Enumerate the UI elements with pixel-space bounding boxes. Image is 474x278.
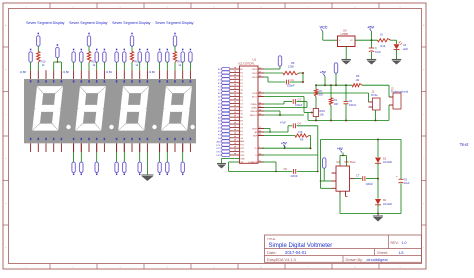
wire IN HI bbox=[264, 93, 369, 102]
svg-text:IN LO: IN LO bbox=[252, 97, 258, 99]
svg-text:R2: R2 bbox=[319, 89, 323, 93]
svg-text:TITLE:: TITLE: bbox=[267, 237, 276, 241]
power flag VCC bbox=[320, 25, 338, 40]
resistor R13 1k (display4) bbox=[173, 33, 182, 79]
wire R9 out bbox=[309, 136, 311, 150]
net flag OSC1 bbox=[278, 56, 281, 69]
svg-text:22K: 22K bbox=[319, 92, 324, 96]
ground (LED) bbox=[392, 60, 402, 65]
decimal point 4 bbox=[190, 125, 194, 129]
ground (U1 GND) bbox=[217, 164, 226, 169]
seven segment display block body bbox=[24, 79, 196, 143]
net flag below display3 pin2 bbox=[123, 143, 126, 175]
net flag (display3 pin5) bbox=[146, 49, 149, 79]
svg-text:RM1: RM1 bbox=[320, 109, 326, 113]
resistor R2 22K bbox=[314, 85, 323, 108]
svg-text:1K: 1K bbox=[380, 33, 383, 37]
svg-text:+5V: +5V bbox=[281, 142, 288, 146]
ground (filter cap) bbox=[367, 60, 377, 65]
svg-text:100nF: 100nF bbox=[349, 103, 357, 107]
svg-text:GND: GND bbox=[240, 159, 245, 161]
svg-text:Seven Segment Display: Seven Segment Display bbox=[112, 21, 151, 25]
svg-text:100uF: 100uF bbox=[295, 103, 303, 107]
svg-text:R10: R10 bbox=[41, 60, 46, 64]
svg-text:2017-04-01: 2017-04-01 bbox=[285, 250, 307, 255]
net flag below display2 pin1 bbox=[72, 143, 75, 175]
svg-text:REV:: REV: bbox=[391, 241, 399, 245]
wire pump bottom bbox=[340, 194, 401, 214]
svg-text:+: + bbox=[396, 174, 398, 178]
svg-text:10uF: 10uF bbox=[404, 182, 410, 185]
connector J2 Probe(optional) bbox=[389, 85, 408, 120]
net flag (display4 pin1) bbox=[158, 49, 161, 79]
svg-text:C3: C3 bbox=[298, 98, 302, 102]
seven-segment digit 3 (all segments lit) bbox=[118, 86, 149, 131]
net flag (display3 pin4) bbox=[138, 49, 141, 79]
svg-text:circuitdigest: circuitdigest bbox=[367, 257, 389, 262]
resistor R5 1M bbox=[352, 74, 362, 87]
capacitor C7 100nF bbox=[356, 173, 378, 185]
svg-text:10K: 10K bbox=[334, 102, 339, 106]
net flag below display2 pin4 bbox=[95, 143, 98, 175]
capacitor C5 100nF bbox=[344, 85, 357, 120]
net flag (display2 pin2) bbox=[80, 49, 83, 79]
svg-text:100pF: 100pF bbox=[287, 84, 295, 88]
wire AZ bbox=[264, 126, 292, 132]
wire measure rail bbox=[315, 84, 389, 86]
decimal point 2 bbox=[109, 125, 113, 129]
net flag below display4 pin4 bbox=[181, 143, 184, 175]
net flag (display4 pin4) bbox=[181, 49, 184, 79]
svg-text:ICL7107CPL: ICL7107CPL bbox=[239, 62, 255, 66]
decimal point 3 bbox=[152, 125, 156, 129]
svg-text:C1: C1 bbox=[291, 78, 295, 82]
svg-text:OSC2: OSC2 bbox=[252, 73, 258, 75]
svg-text:C6: C6 bbox=[284, 167, 288, 171]
seven-segment digit 4 (all segments lit) bbox=[161, 86, 192, 131]
wire CREF- bbox=[264, 102, 307, 108]
diode D2 1N4148 bbox=[375, 179, 392, 214]
unconnected pin stub display1 bbox=[45, 70, 47, 79]
svg-text:1.0: 1.0 bbox=[402, 241, 407, 245]
svg-text:47uF: 47uF bbox=[280, 120, 286, 124]
svg-text:+5V: +5V bbox=[320, 70, 327, 74]
svg-text:OSC1: OSC1 bbox=[252, 69, 258, 71]
wire C4 to node bbox=[297, 126, 318, 172]
net flag below display3 pin1 bbox=[115, 143, 118, 175]
resistor R10 1k (display1 com) bbox=[37, 33, 46, 79]
svg-text:10k: 10k bbox=[320, 112, 325, 116]
net flag (display2 pin4) bbox=[95, 49, 98, 79]
svg-text:R8: R8 bbox=[291, 61, 295, 65]
svg-text:Seven Segment Display: Seven Segment Display bbox=[26, 21, 65, 25]
resistor R16 1K bbox=[378, 33, 397, 49]
net flag below display3 pin4 bbox=[138, 143, 141, 175]
wire OSC1 bbox=[264, 68, 280, 70]
wire INT pin U1 bbox=[229, 162, 292, 171]
resistor R12 1k (display3) bbox=[130, 33, 139, 79]
svg-text:V-: V- bbox=[255, 155, 257, 157]
resistor R11 1k (display2) bbox=[87, 33, 96, 79]
svg-text:R5: R5 bbox=[356, 74, 360, 78]
wire COMMON bbox=[262, 162, 277, 172]
net flag seg A (display1) bbox=[29, 49, 32, 79]
wire IN LO bbox=[264, 97, 304, 113]
net flag shared pins 4-5 display1 bbox=[54, 44, 62, 79]
svg-text:C: C bbox=[375, 46, 377, 50]
svg-text:Drawn By:: Drawn By: bbox=[346, 258, 364, 262]
svg-text:Seven Segment Display: Seven Segment Display bbox=[155, 21, 194, 25]
capacitor C4 0.47uF bbox=[280, 120, 301, 128]
svg-text:CREF+: CREF+ bbox=[251, 104, 258, 106]
wire V- bbox=[262, 154, 318, 156]
svg-text:1/1: 1/1 bbox=[399, 250, 404, 255]
wire REF LO bbox=[264, 114, 304, 116]
svg-text:L7805: L7805 bbox=[341, 32, 349, 36]
regulator U3 L7805 bbox=[338, 28, 356, 59]
ground (display common) bbox=[141, 152, 153, 181]
wire pump rail bbox=[320, 139, 401, 182]
wire BUF bbox=[264, 135, 295, 137]
svg-text:LED: LED bbox=[403, 47, 408, 51]
wire OSC2 bbox=[264, 72, 283, 74]
wire CREF+ bbox=[264, 102, 292, 105]
svg-text:Probe(optional): Probe(optional) bbox=[391, 90, 408, 93]
svg-text:Date:: Date: bbox=[267, 250, 277, 255]
wire 555 out bbox=[355, 178, 362, 180]
net flag (display4 pin2) bbox=[166, 49, 169, 79]
svg-text:Sheet:: Sheet: bbox=[377, 250, 388, 255]
power flag +5V (supply) bbox=[367, 25, 374, 40]
diode D1 1N4148 bbox=[375, 140, 392, 180]
op-amp U1 ICL7107CPL bbox=[239, 58, 265, 164]
net label bus to U1 bbox=[216, 67, 239, 157]
svg-text:1N4148: 1N4148 bbox=[383, 161, 392, 164]
svg-text:+5V: +5V bbox=[337, 147, 344, 151]
wire bottom rail bbox=[308, 113, 389, 122]
display bottom pin stubs bbox=[31, 143, 191, 152]
seven-segment digit 1 (all segments lit) bbox=[32, 86, 63, 131]
svg-text:J1,B6: J1,B6 bbox=[63, 71, 70, 74]
svg-text:C5: C5 bbox=[349, 99, 353, 103]
timer U2 555 bbox=[332, 161, 356, 196]
svg-text:47K: 47K bbox=[298, 130, 303, 134]
svg-text:OSC3: OSC3 bbox=[252, 77, 258, 79]
net flag Vin bbox=[334, 63, 337, 85]
capacitor C8 10uF bbox=[396, 140, 410, 214]
svg-text:Simple Digital Voltmeter: Simple Digital Voltmeter bbox=[269, 243, 333, 249]
svg-text:EasyEDA V4.1.3: EasyEDA V4.1.3 bbox=[267, 257, 296, 262]
svg-text:555 Timer: 555 Timer bbox=[345, 161, 356, 164]
power flag +5V (555) bbox=[337, 147, 347, 166]
svg-text:REF HI: REF HI bbox=[251, 111, 258, 113]
svg-text:C7: C7 bbox=[356, 173, 360, 177]
power flag +5V (V+) bbox=[281, 142, 288, 148]
svg-text:R16: R16 bbox=[381, 44, 386, 48]
svg-text:Text: Text bbox=[460, 142, 469, 148]
svg-text:10uF: 10uF bbox=[375, 50, 381, 54]
svg-text:J1,B8: J1,B8 bbox=[20, 71, 27, 74]
potentiometer RM1 10k bbox=[304, 109, 326, 121]
svg-text:U3: U3 bbox=[343, 28, 347, 32]
net flag below display2 pin2 bbox=[80, 143, 83, 175]
svg-text:C4: C4 bbox=[298, 122, 302, 126]
wire V+ bbox=[262, 145, 311, 149]
resistor R9 47K bbox=[295, 130, 309, 141]
net flag (display3 pin1) bbox=[115, 49, 118, 79]
svg-text:POL: POL bbox=[216, 145, 221, 147]
capacitor C3 100uF bbox=[293, 98, 303, 107]
resistor R8 120K bbox=[283, 61, 299, 75]
display pin numbers bbox=[30, 80, 191, 140]
svg-text:COMMON: COMMON bbox=[248, 162, 258, 164]
net flag (display3 pin2) bbox=[123, 49, 126, 79]
wire 555 pin2-3 bbox=[321, 181, 332, 188]
ground (pump) bbox=[373, 214, 383, 222]
capacitor C1 100pF bbox=[287, 78, 295, 88]
net flag below display4 pin1 bbox=[158, 143, 161, 175]
wire C6 right bbox=[297, 171, 319, 173]
connector J1 Probe bbox=[369, 91, 381, 121]
svg-text:1N4148: 1N4148 bbox=[383, 203, 392, 206]
svg-text:U4: U4 bbox=[403, 43, 407, 47]
capacitor C6 220nF bbox=[284, 167, 299, 178]
title block bbox=[265, 235, 422, 262]
svg-text:J1,B2: J1,B2 bbox=[149, 71, 156, 74]
wire REF HI bbox=[264, 111, 281, 116]
svg-text:CREF-: CREF- bbox=[251, 108, 257, 110]
wire TEST bbox=[264, 129, 271, 133]
svg-text:100nF: 100nF bbox=[366, 182, 374, 186]
svg-text:120K: 120K bbox=[288, 64, 294, 68]
net flag (display2 pin1) bbox=[72, 49, 75, 79]
power flag +5V (rail) bbox=[320, 70, 327, 85]
svg-text:TEST: TEST bbox=[252, 129, 258, 131]
svg-text:Seven Segment Display: Seven Segment Display bbox=[69, 21, 108, 25]
svg-text:J1,B4: J1,B4 bbox=[106, 71, 113, 74]
LED U4 bbox=[394, 40, 408, 59]
svg-text:1M: 1M bbox=[356, 78, 360, 82]
resistor R4 10K bbox=[329, 85, 338, 120]
svg-text:VCC: VCC bbox=[320, 25, 328, 29]
ground (regulator) bbox=[341, 60, 351, 65]
svg-text:+5V: +5V bbox=[367, 25, 374, 29]
wire GND pin U1 bbox=[222, 159, 240, 164]
svg-text:R4: R4 bbox=[334, 98, 338, 102]
svg-text:Probe: Probe bbox=[371, 94, 378, 97]
wire OSC3 bbox=[264, 77, 285, 82]
seven-segment digit 2 (all segments lit) bbox=[75, 86, 106, 131]
svg-text:R9: R9 bbox=[300, 138, 304, 142]
wire OSC loop bbox=[290, 72, 304, 83]
net flag (display2 pin5) bbox=[103, 49, 106, 79]
wire regulator out bbox=[355, 39, 378, 41]
svg-text:IN HI: IN HI bbox=[253, 93, 258, 95]
net flag 555 bbox=[323, 158, 326, 181]
capacitor C 10uF bbox=[369, 40, 382, 59]
svg-text:220nF: 220nF bbox=[291, 174, 299, 178]
decimal point 1 bbox=[66, 125, 70, 129]
svg-text:REF LO: REF LO bbox=[250, 115, 258, 117]
net flag (display4 pin5) bbox=[189, 49, 192, 79]
net flag below display4 pin2 bbox=[166, 143, 169, 175]
